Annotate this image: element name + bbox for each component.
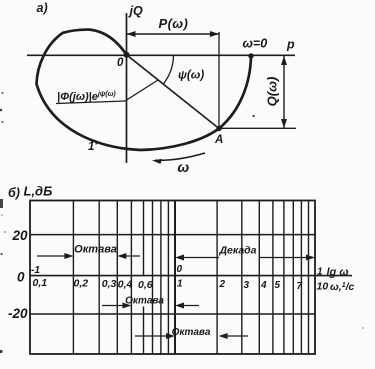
svg-text:0: 0: [177, 264, 183, 275]
dimension Q(omega) with arrows: [283, 56, 285, 128]
grid frame: [30, 201, 315, 355]
svg-text:Октава: Октава: [172, 327, 211, 338]
svg-text:lg ω: lg ω: [327, 267, 349, 279]
node origin: [124, 52, 130, 58]
svg-text:0,1: 0,1: [33, 277, 48, 289]
octave 1 right arrow: [120, 255, 140, 257]
svg-text:3: 3: [244, 280, 250, 291]
pointer from label to vector: [125, 80, 158, 101]
octave 3 right arrow: [221, 335, 248, 337]
svg-text:4: 4: [260, 280, 267, 291]
svg-text:0: 0: [117, 57, 124, 69]
svg-text:10: 10: [317, 281, 329, 293]
vertical gridline 0.6 (interrupted by labels): [143, 201, 145, 355]
svg-text:-1: -1: [31, 265, 40, 276]
angle arc psi: [163, 55, 173, 84]
gridline +20 dB: [30, 234, 315, 236]
octave 3 left arrow: [135, 335, 172, 337]
svg-text:5: 5: [275, 280, 281, 291]
svg-text:0,4: 0,4: [118, 279, 133, 291]
extension line from P-dim down to A: [218, 32, 220, 129]
svg-text:ω: ω: [178, 159, 190, 175]
scan speckles: [2, 92, 4, 94]
svg-text:P(ω): P(ω): [159, 16, 189, 31]
vertical gridline omega=1: [174, 201, 176, 355]
svg-text:ψ(ω): ψ(ω): [178, 70, 204, 82]
svg-text:1: 1: [317, 267, 323, 278]
svg-text:Q(ω): Q(ω): [265, 77, 280, 107]
dimension P(omega) line with arrows: [127, 33, 220, 35]
omega direction arrow (curved): [155, 153, 205, 160]
svg-text:7: 7: [297, 281, 303, 292]
octave 2 left arrow: [102, 305, 129, 307]
svg-text:а): а): [37, 1, 48, 15]
octave 1 left arrow: [37, 255, 71, 257]
svg-text:1: 1: [177, 279, 183, 290]
svg-text:ω,1/с: ω,1/с: [330, 281, 355, 293]
svg-text:p: p: [286, 38, 295, 52]
vector 0A: [127, 55, 220, 129]
decade left arrow: [178, 257, 219, 259]
axis jQ (vertical): [126, 13, 128, 163]
extension line from A to the right: [219, 127, 296, 129]
svg-text:0,2: 0,2: [74, 278, 89, 290]
svg-text:Декада: Декада: [218, 245, 256, 257]
octave 2 right arrow: [178, 305, 199, 307]
gridline 0 dB / lg omega axis: [30, 275, 352, 277]
svg-text:0: 0: [17, 270, 25, 285]
svg-text:20: 20: [11, 228, 28, 243]
point omega=0: [248, 53, 253, 58]
axis P (horizontal): [27, 54, 295, 56]
svg-text:0,3: 0,3: [102, 278, 117, 290]
svg-text:Октава: Октава: [74, 244, 117, 256]
svg-text:б): б): [8, 186, 20, 200]
decade right arrow: [259, 257, 312, 259]
gridline -20 dB: [30, 313, 315, 315]
svg-text:0,6: 0,6: [138, 279, 153, 291]
svg-text:1′: 1′: [88, 141, 98, 153]
svg-text:Октава: Октава: [125, 296, 164, 307]
underline of label: [56, 101, 125, 104]
svg-text:ω=0: ω=0: [243, 37, 268, 51]
vertical gridlines second decade: [217, 201, 308, 355]
point A: [216, 126, 221, 131]
svg-text:L,дБ: L,дБ: [24, 184, 53, 199]
svg-text:A: A: [214, 134, 223, 146]
svg-text:jQ: jQ: [128, 4, 143, 18]
svg-text:2: 2: [219, 279, 226, 290]
vertical gridlines first decade: [73, 201, 168, 355]
svg-text:-20: -20: [8, 306, 28, 321]
hodograph curve: [37, 30, 252, 150]
